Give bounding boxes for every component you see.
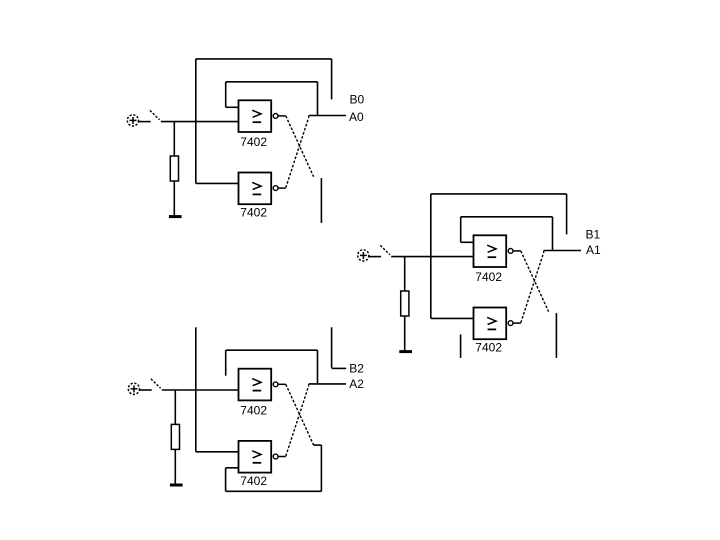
svg-text:A1: A1 (586, 243, 601, 257)
svg-text:7402: 7402 (475, 270, 502, 284)
svg-text:B2: B2 (349, 361, 364, 375)
svg-text:7402: 7402 (240, 404, 267, 418)
svg-text:A0: A0 (349, 110, 364, 124)
svg-text:B0: B0 (350, 92, 365, 106)
svg-text:7402: 7402 (240, 474, 267, 488)
svg-text:7402: 7402 (240, 206, 267, 220)
svg-text:7402: 7402 (240, 135, 267, 149)
svg-text:B1: B1 (586, 227, 601, 241)
svg-text:A2: A2 (349, 377, 364, 391)
svg-text:7402: 7402 (475, 341, 502, 355)
